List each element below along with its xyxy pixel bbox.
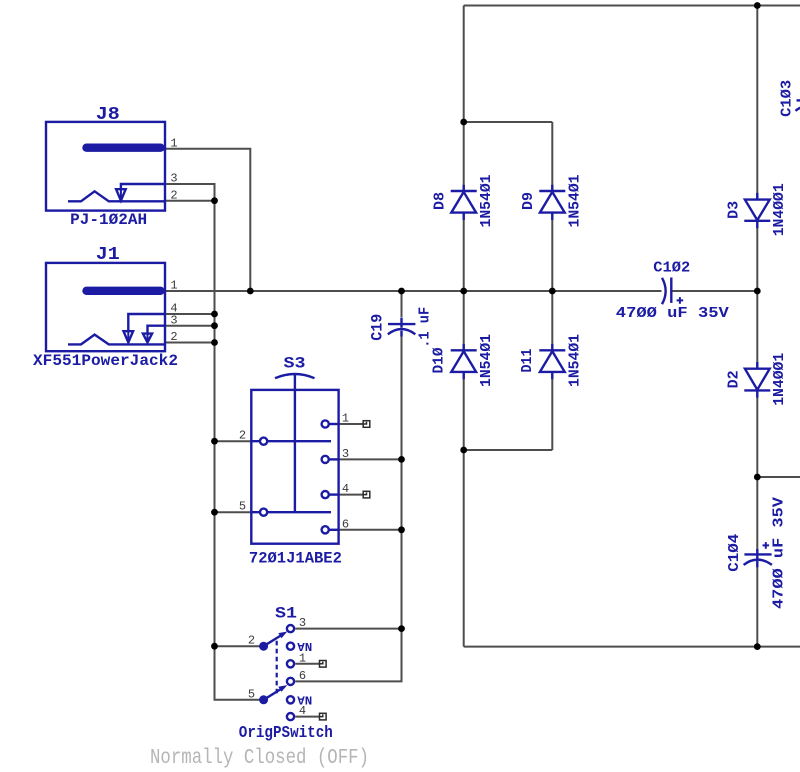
J1 pin 3 arrow bbox=[143, 334, 152, 343]
svg-text:Normally Closed (OFF): Normally Closed (OFF) bbox=[150, 746, 369, 770]
S3 pin 4 circle bbox=[322, 491, 329, 498]
junction dot J1 pin2 bbox=[211, 339, 218, 346]
J1 barrel pin 1 bbox=[87, 287, 161, 295]
wire J8 pin2 bbox=[165, 200, 215, 202]
svg-text:3: 3 bbox=[170, 313, 177, 327]
wire S3 pin3 bbox=[339, 458, 402, 460]
diode D10 bbox=[451, 344, 477, 379]
svg-text:D1Ø: D1Ø bbox=[431, 348, 448, 374]
wire S1 pin3 bbox=[295, 628, 401, 630]
S1 pin 3 circle bbox=[287, 625, 294, 632]
wire right vertical lower bbox=[756, 567, 758, 647]
svg-text:5: 5 bbox=[248, 687, 255, 701]
wire bottom rail bbox=[464, 646, 800, 648]
no-connect S3 pin1 bbox=[363, 421, 370, 428]
S3 pin 1 circle bbox=[322, 420, 329, 427]
svg-text:1N54Ø1: 1N54Ø1 bbox=[567, 334, 584, 387]
svg-text:72Ø1J1ABE2: 72Ø1J1ABE2 bbox=[249, 550, 342, 568]
S3 pin 6 line bbox=[329, 529, 338, 531]
junction dot S3 pin5 bbox=[211, 509, 218, 516]
junction dot S1 pin3 bbox=[398, 625, 405, 632]
svg-text:D2: D2 bbox=[726, 370, 743, 388]
wire S3 pin6 bbox=[339, 529, 402, 531]
wire S1 pin2 bbox=[215, 645, 260, 647]
S1 NA circle lower bbox=[287, 696, 294, 703]
S3 pin 5 line bbox=[251, 511, 331, 513]
svg-text:S3: S3 bbox=[284, 355, 306, 373]
S3 pin 2 line bbox=[251, 440, 331, 442]
svg-text:D9: D9 bbox=[520, 192, 537, 210]
svg-text:1N4ØØ1: 1N4ØØ1 bbox=[771, 183, 788, 236]
svg-text:D3: D3 bbox=[726, 201, 743, 219]
wire trunk x=214.5 down to S1 pin5 bbox=[215, 201, 260, 700]
svg-text:D11: D11 bbox=[519, 349, 536, 373]
S1 arm arrowhead upper bbox=[278, 632, 287, 639]
svg-text:1: 1 bbox=[342, 412, 349, 426]
S1 pin 6 circle bbox=[287, 678, 294, 685]
wire top rail bbox=[464, 5, 800, 7]
junction dot J1 pin4 bbox=[211, 311, 218, 318]
junction dot S1 pin2 bbox=[211, 643, 218, 650]
S3 pin 2 circle bbox=[260, 438, 267, 445]
diode D9 bbox=[539, 185, 565, 220]
S1 arm pole2 to pin3 bbox=[264, 635, 281, 646]
S1 NA circle upper bbox=[287, 643, 294, 650]
S1 pin 2 pole circle bbox=[259, 642, 268, 651]
capacitor C103 partial at right edge bbox=[796, 100, 800, 111]
wire S3 pin2 bbox=[215, 440, 252, 442]
diode D2 bbox=[744, 362, 770, 398]
svg-text:OrigPSwitch: OrigPSwitch bbox=[239, 723, 333, 742]
svg-text:PJ-1Ø2AH: PJ-1Ø2AH bbox=[70, 211, 147, 229]
connector J8 body bbox=[46, 122, 165, 211]
wire S3 pin1 to no-connect bbox=[339, 423, 367, 425]
S1 pin 5 pole circle bbox=[259, 695, 268, 704]
wire middle rail right of C102 bbox=[671, 290, 757, 292]
svg-text:6: 6 bbox=[299, 669, 306, 683]
S3 pin 3 circle bbox=[322, 456, 329, 463]
svg-text:2: 2 bbox=[248, 634, 255, 648]
wire bridge top bbox=[464, 121, 553, 123]
svg-text:NA: NA bbox=[297, 639, 312, 652]
svg-text:J1: J1 bbox=[96, 245, 120, 265]
wire D2 bottom stub to right edge bbox=[757, 476, 800, 478]
S3 actuator arc bbox=[275, 374, 315, 378]
wire S3 pin4 to no-connect bbox=[339, 494, 367, 496]
junction dot J8 pin2/pin3 bbox=[211, 197, 218, 204]
wire J8 pin1 to mid rail bbox=[165, 149, 250, 291]
svg-text:4: 4 bbox=[342, 482, 349, 496]
svg-text:D8: D8 bbox=[432, 192, 449, 210]
svg-text:1N54Ø1: 1N54Ø1 bbox=[478, 334, 495, 387]
junction dot bottom rail right bbox=[754, 643, 761, 650]
no-connect S3 pin4 bbox=[363, 491, 370, 498]
S3 pin 4 line bbox=[329, 493, 338, 495]
svg-text:1N54Ø1: 1N54Ø1 bbox=[478, 175, 495, 228]
wire J1 pin2 bbox=[165, 342, 215, 344]
J1 contact spring pin 2 bbox=[68, 335, 164, 345]
J8 barrel pin 1 bbox=[87, 143, 161, 151]
junction dot C19 top bbox=[398, 288, 405, 295]
svg-text:5: 5 bbox=[239, 500, 246, 514]
junction dot bridge bottom left bbox=[460, 447, 467, 454]
junction dot S3 pin2 bbox=[211, 438, 218, 445]
S3 pin 3 line bbox=[329, 458, 338, 460]
junction dot J8 pin1 on mid rail bbox=[247, 288, 254, 295]
S1 pin 4 circle bbox=[287, 713, 294, 720]
diode D11 bbox=[539, 344, 565, 379]
S3 actuator stem bbox=[294, 375, 296, 512]
svg-text:C1Ø4: C1Ø4 bbox=[726, 534, 743, 572]
no-connect S1 pin4 bbox=[320, 713, 327, 720]
svg-text:1N54Ø1: 1N54Ø1 bbox=[567, 175, 584, 228]
capacitor C104 bbox=[744, 542, 772, 567]
diode D8 bbox=[451, 185, 477, 220]
wire S1 pin4 to no-connect bbox=[295, 716, 323, 718]
wire S3 pin5 bbox=[215, 511, 252, 513]
J8 pin 3 internal line bbox=[121, 184, 164, 190]
svg-text:4: 4 bbox=[299, 704, 306, 718]
S1 arm arrowhead lower bbox=[278, 685, 287, 692]
svg-text:2: 2 bbox=[170, 188, 177, 202]
wire J8 pin3 bbox=[165, 184, 215, 201]
wire bridge right vertical bbox=[551, 122, 553, 450]
J8 contact spring pin 2 bbox=[68, 191, 164, 201]
svg-text:1: 1 bbox=[170, 279, 177, 293]
svg-text:47ØØ uF 35V: 47ØØ uF 35V bbox=[616, 305, 729, 322]
diode D3 bbox=[744, 193, 770, 228]
wire J1 pin3 bbox=[165, 325, 215, 327]
wire C19 bottom run to S1 pin6 bbox=[295, 337, 401, 682]
wire C19 top stub bbox=[401, 291, 403, 317]
junction dot J1 pin3 bbox=[211, 322, 218, 329]
svg-text:S1: S1 bbox=[275, 604, 297, 622]
connector J1 body bbox=[46, 263, 165, 351]
J8 pin 3 arrow bbox=[116, 189, 126, 200]
svg-text:3: 3 bbox=[170, 172, 177, 186]
svg-text:J8: J8 bbox=[96, 105, 120, 125]
junction dot bridge right mid bbox=[549, 288, 556, 295]
wire S1 pin1 to no-connect bbox=[295, 663, 323, 665]
wire J1 pin4 bbox=[165, 313, 215, 315]
S3 pin 5 circle bbox=[260, 509, 267, 516]
svg-text:1N4ØØ1: 1N4ØØ1 bbox=[771, 353, 788, 406]
svg-text:C1Ø2: C1Ø2 bbox=[653, 260, 690, 277]
junction dot bridge top left bbox=[460, 119, 467, 126]
svg-text:1: 1 bbox=[299, 651, 306, 665]
junction dot D2 bottom bbox=[754, 474, 761, 481]
svg-text:1: 1 bbox=[170, 136, 177, 150]
svg-text:2: 2 bbox=[170, 330, 177, 344]
svg-text:3: 3 bbox=[299, 616, 306, 630]
J1 pin 4 arrow bbox=[124, 331, 134, 342]
junction dot top rail right bbox=[754, 2, 761, 9]
svg-text:3: 3 bbox=[342, 447, 349, 461]
S3 pin 1 line bbox=[329, 423, 338, 425]
J1 pin 4 internal line bbox=[128, 314, 164, 332]
S1 arm pole5 to pin6 bbox=[264, 689, 281, 700]
wire left loop vertical bbox=[463, 6, 465, 647]
svg-text:XF551PowerJack2: XF551PowerJack2 bbox=[33, 352, 178, 370]
svg-text:C19: C19 bbox=[369, 314, 387, 341]
no-connect S1 pin1 bbox=[320, 661, 327, 668]
wire middle rail left of C102 bbox=[165, 290, 662, 292]
capacitor C19 bbox=[388, 318, 416, 337]
S3 pin 6 circle bbox=[322, 526, 329, 533]
junction dot S3 pin3 bbox=[398, 456, 405, 463]
svg-text:6: 6 bbox=[342, 517, 349, 531]
wire bridge bottom bbox=[464, 449, 553, 451]
svg-text:2: 2 bbox=[239, 429, 246, 443]
J1 pin 3 internal line bbox=[148, 326, 165, 334]
junction dot S3 pin6 bbox=[398, 526, 405, 533]
wire right vertical upper bbox=[756, 6, 758, 550]
junction dot bridge left mid bbox=[460, 288, 467, 295]
S1 ganged link dashed line bbox=[276, 641, 278, 696]
svg-text:.1 uF: .1 uF bbox=[416, 307, 433, 348]
S1 pin 1 circle bbox=[287, 660, 294, 667]
capacitor C102 bbox=[662, 278, 683, 305]
junction dot C102 right bbox=[754, 288, 761, 295]
svg-text:C1Ø3: C1Ø3 bbox=[779, 80, 796, 117]
svg-text:47ØØ uF 35V: 47ØØ uF 35V bbox=[771, 497, 788, 609]
switch S3 body bbox=[251, 390, 338, 544]
